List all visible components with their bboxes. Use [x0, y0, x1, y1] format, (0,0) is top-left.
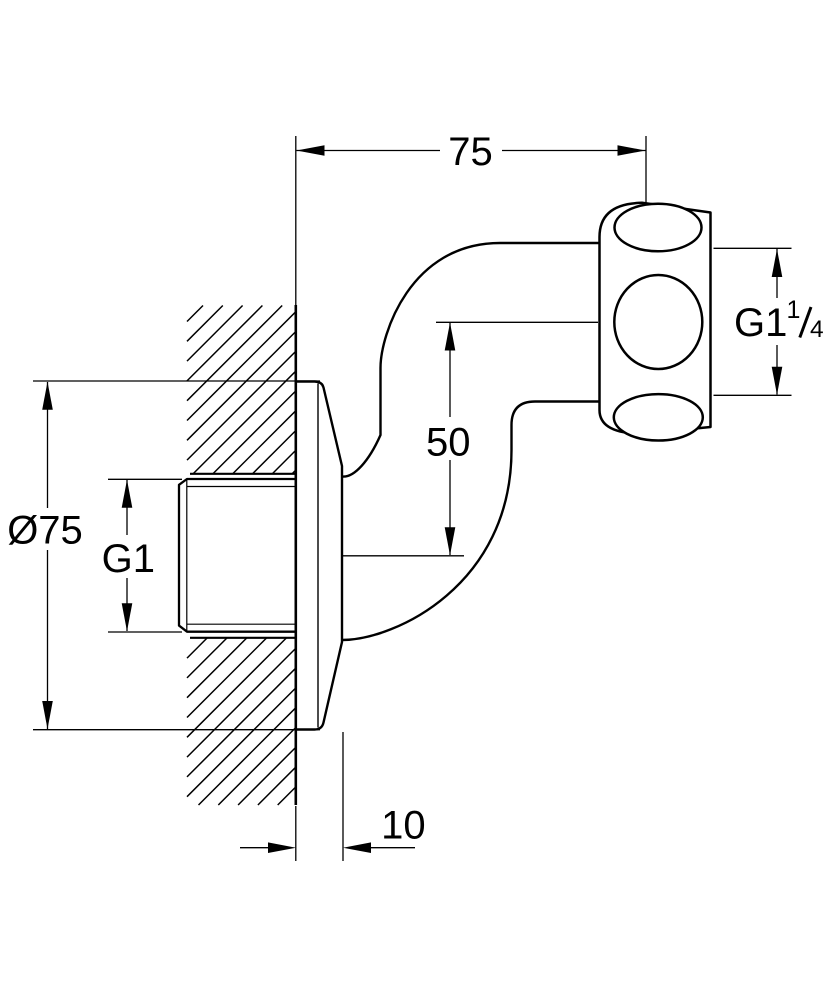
dim G1 1/4: dimension line [776, 249, 778, 298]
dim Ø75: bottom extension line [33, 729, 320, 731]
svg-text:50: 50 [426, 420, 471, 464]
S-tube lower edge [342, 402, 599, 641]
thread minor line top [187, 486, 297, 488]
dim 75: dimension line [297, 150, 441, 152]
svg-text:Ø75: Ø75 [7, 509, 83, 553]
dim G1 1/4: top arrow [772, 249, 783, 277]
dim 10: left extension line [295, 806, 297, 861]
dim 10: right arrow [343, 842, 371, 853]
dim G1: dimension line [126, 480, 128, 535]
dim G1 1/4: fraction slash [800, 307, 811, 338]
dim 50: dimension line [449, 323, 451, 417]
flange outline [297, 382, 343, 730]
dim 75: right arrow [618, 145, 646, 156]
wall face line [294, 305, 297, 805]
svg-text:4: 4 [810, 316, 824, 343]
dim 10: right tail line [371, 847, 415, 849]
dim 50: bottom extension line [342, 555, 464, 557]
dim G1 1/4: bottom extension line [714, 394, 792, 396]
nut bottom port ellipse [614, 394, 703, 440]
dim 75: left extension line (wall face) [295, 136, 297, 306]
svg-text:10: 10 [381, 803, 426, 847]
dim G1: bottom extension line [108, 631, 182, 633]
svg-text:1: 1 [787, 296, 801, 324]
dim 50: top arrow [445, 323, 456, 351]
dim 75: right extension line [645, 136, 647, 203]
dim 10: left tail line [240, 847, 268, 849]
nut top port ellipse [615, 204, 702, 252]
dim Ø75: top arrow [42, 382, 53, 410]
threaded pipe G1 outline [179, 479, 297, 632]
dim 10: left arrow [268, 842, 296, 853]
S-tube upper edge [342, 243, 599, 477]
dim 75: left arrow [297, 145, 325, 156]
dim 50: top extension line [436, 321, 598, 323]
wall hole lower edge [190, 637, 297, 639]
dim 50: bottom arrow [445, 527, 456, 555]
svg-text:75: 75 [448, 130, 493, 174]
wall hatching upper band [187, 306, 296, 474]
dim Ø75: top extension line [33, 380, 320, 382]
nut middle hole circle [614, 275, 702, 369]
dim G1 1/4: top extension line [714, 247, 792, 249]
dim 10: right extension line [342, 732, 344, 861]
thread chamfer line [186, 479, 188, 632]
flange base cylinder edge [317, 384, 319, 728]
svg-text:G1: G1 [734, 301, 787, 345]
dim G1: top arrow [122, 480, 133, 508]
dim Ø75: dimension line [47, 382, 49, 508]
dim G1 1/4: bottom arrow [772, 367, 783, 395]
dim Ø75: bottom arrow [42, 701, 53, 729]
dim G1: top extension line [108, 478, 182, 480]
union nut body [600, 203, 711, 434]
wall hole upper edge [190, 473, 297, 475]
svg-text:G1: G1 [102, 537, 155, 581]
dim G1: bottom arrow [122, 603, 133, 631]
wall hatching lower band [187, 638, 296, 805]
thread minor line bottom [187, 623, 297, 625]
